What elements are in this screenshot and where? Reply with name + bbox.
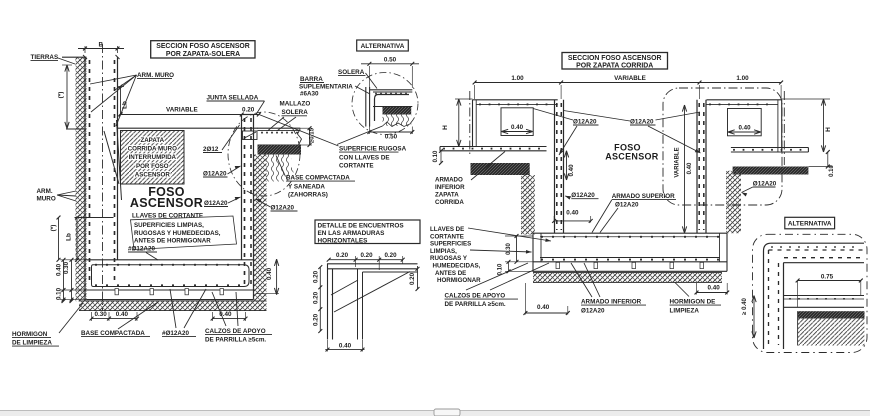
svg-text:Ø12A20: Ø12A20 [203,171,227,178]
svg-text:LIMPIAS,: LIMPIAS, [430,248,457,255]
svg-text:0.20: 0.20 [360,252,373,259]
svg-text:ANTES DE: ANTES DE [435,270,466,277]
svg-text:DE LIMPIEZA: DE LIMPIEZA [12,340,52,347]
svg-text:(ZAHORRAS): (ZAHORRAS) [288,192,328,199]
svg-text:0.50: 0.50 [384,57,397,64]
svg-text:0.30: 0.30 [506,243,512,255]
svg-text:INFERIOR: INFERIOR [435,184,465,191]
svg-text:0.20: 0.20 [384,252,397,259]
svg-text:DE PARRILLA ≥5cm.: DE PARRILLA ≥5cm. [445,301,506,308]
svg-text:0.40: 0.40 [568,164,575,177]
svg-text:0.20: 0.20 [242,107,255,114]
svg-text:0.20: 0.20 [409,272,416,285]
svg-text:0.10: 0.10 [829,165,835,177]
svg-text:ZAPATA: ZAPATA [435,192,459,199]
svg-text:POR ZAPATA-SOLERA: POR ZAPATA-SOLERA [166,51,240,58]
svg-text:JUNTA SELLADA: JUNTA SELLADA [207,95,259,102]
svg-text:HORIZONTALES: HORIZONTALES [318,238,369,245]
svg-text:HORMIGON: HORMIGON [12,331,48,338]
svg-text:ASCENSOR: ASCENSOR [605,151,659,161]
svg-text:0.30: 0.30 [63,261,70,274]
svg-text:CORTANTE: CORTANTE [430,233,464,240]
svg-text:SOLERA: SOLERA [282,109,309,116]
svg-text:0.40: 0.40 [55,263,62,276]
svg-text:DE PARRILLA ≥5cm.: DE PARRILLA ≥5cm. [205,337,266,344]
svg-text:Ø12A20: Ø12A20 [630,119,654,126]
svg-text:1.00: 1.00 [511,75,524,82]
svg-text:Ø12A20: Ø12A20 [615,202,639,209]
svg-text:LIMPIEZA: LIMPIEZA [670,308,700,315]
svg-text:Ø12A20: Ø12A20 [271,205,295,212]
svg-text:(*): (*) [58,92,65,99]
svg-text:ASCENSOR: ASCENSOR [135,171,171,178]
svg-text:CORRIDA: CORRIDA [435,199,464,206]
svg-text:Lb: Lb [122,101,129,109]
svg-text:2Ø12: 2Ø12 [203,146,219,153]
svg-text:LLAVES DE: LLAVES DE [430,226,464,233]
svg-text:TIERRAS: TIERRAS [31,54,59,61]
svg-text:0.40: 0.40 [738,125,751,132]
svg-text:HUMEDECIDAS,: HUMEDECIDAS, [433,263,481,270]
svg-text:CALZOS DE APOYO: CALZOS DE APOYO [205,328,266,335]
svg-text:0.30: 0.30 [95,311,108,318]
svg-text:CON LLAVES DE: CON LLAVES DE [339,155,390,162]
svg-text:ZAPATA: ZAPATA [140,137,164,144]
svg-text:DETALLE DE ENCUENTROS: DETALLE DE ENCUENTROS [318,222,405,229]
svg-text:0.50: 0.50 [385,134,398,141]
svg-text:B: B [99,41,104,48]
svg-text:H: H [442,125,449,130]
svg-text:INTERRUMPIDA: INTERRUMPIDA [129,154,177,161]
svg-text:0.40: 0.40 [708,284,721,291]
svg-text:0.10: 0.10 [433,150,439,162]
svg-text:POR ZAPATA CORRIDA: POR ZAPATA CORRIDA [576,62,653,69]
svg-text:ANTES DE HORMIGONAR: ANTES DE HORMIGONAR [134,238,211,245]
svg-text:0.75: 0.75 [821,273,834,280]
svg-text:0.40: 0.40 [116,311,129,318]
svg-text:ARM. MURO: ARM. MURO [137,72,174,79]
svg-text:0.20: 0.20 [336,252,349,259]
svg-text:VARIABLE: VARIABLE [614,75,646,82]
svg-text:(*): (*) [50,225,57,232]
svg-text:POR FOSO: POR FOSO [136,163,169,170]
svg-text:H: H [825,127,832,132]
svg-text:Ø12A20: Ø12A20 [571,192,595,199]
svg-text:MALLAZO: MALLAZO [280,101,311,108]
svg-text:SECCION FOSO ASCENSOR: SECCION FOSO ASCENSOR [568,55,662,62]
svg-text:CALZOS DE APOYO: CALZOS DE APOYO [445,293,506,300]
svg-text:SUPERFICIE RUGOSA: SUPERFICIE RUGOSA [339,146,407,153]
svg-text:0.40: 0.40 [687,162,693,174]
svg-text:0.10: 0.10 [55,287,62,300]
svg-text:#Ø12A20: #Ø12A20 [128,246,155,253]
svg-text:0.10: 0.10 [498,263,504,275]
svg-text:BASE COMPACTADA: BASE COMPACTADA [81,330,145,337]
svg-text:CORRIDA MURO: CORRIDA MURO [128,146,177,153]
svg-text:BARRA: BARRA [300,76,323,83]
svg-text:HORMIGON DE: HORMIGON DE [670,299,716,306]
svg-text:Lb: Lb [66,233,73,241]
svg-text:1.00: 1.00 [736,75,749,82]
svg-text:VARIABLE: VARIABLE [675,147,681,177]
svg-text:Ø12A20: Ø12A20 [753,181,777,188]
svg-text:0.40: 0.40 [266,267,273,280]
svg-text:ALTERNATIVA: ALTERNATIVA [788,221,832,228]
svg-text:ARMADO INFERIOR: ARMADO INFERIOR [581,299,642,306]
svg-text:Y SANEADA: Y SANEADA [288,184,325,191]
svg-text:0.40: 0.40 [511,124,524,131]
svg-text:ASCENSOR: ASCENSOR [130,196,203,210]
svg-text:0.20: 0.20 [312,291,319,304]
svg-text:ARMADO SUPERIOR: ARMADO SUPERIOR [612,193,675,200]
svg-text:#6A30: #6A30 [300,91,319,98]
svg-text:RUGOSAS Y HUMEDECIDAS,: RUGOSAS Y HUMEDECIDAS, [134,230,221,237]
svg-text:BASE COMPACTADA: BASE COMPACTADA [286,175,350,182]
svg-text:MURO: MURO [37,196,56,203]
svg-text:HORMIGONAR: HORMIGONAR [437,277,481,284]
svg-text:ARM.: ARM. [37,188,53,195]
svg-text:Ø12A20: Ø12A20 [573,119,597,126]
svg-text:Ø12A20: Ø12A20 [204,200,228,207]
svg-text:0.20: 0.20 [312,313,319,326]
svg-text:ALTERNATIVA: ALTERNATIVA [361,43,405,50]
svg-text:SUPERFICIES: SUPERFICIES [430,241,471,248]
svg-text:#Ø12A20: #Ø12A20 [162,330,189,337]
svg-text:ARMADO: ARMADO [435,177,463,184]
svg-text:EN LAS ARMADURAS: EN LAS ARMADURAS [318,230,386,237]
svg-text:VARIABLE: VARIABLE [166,106,198,113]
svg-text:0.40: 0.40 [566,209,579,216]
svg-text:0.40: 0.40 [537,304,550,311]
svg-text:SUPERFICIES LIMPIAS,: SUPERFICIES LIMPIAS, [134,222,204,229]
svg-text:RUGOSAS Y: RUGOSAS Y [430,255,468,262]
svg-text:0.40: 0.40 [339,342,352,349]
svg-text:SUPLEMENTARIA: SUPLEMENTARIA [299,84,353,91]
svg-text:Ø12A20: Ø12A20 [581,308,605,315]
svg-text:SECCION FOSO ASCENSOR: SECCION FOSO ASCENSOR [156,43,250,50]
svg-text:CORTANTE: CORTANTE [339,163,374,170]
svg-text:0.20: 0.20 [312,270,319,283]
svg-text:SOLERA: SOLERA [338,69,365,76]
svg-text:≥ 0.40: ≥ 0.40 [742,298,748,315]
